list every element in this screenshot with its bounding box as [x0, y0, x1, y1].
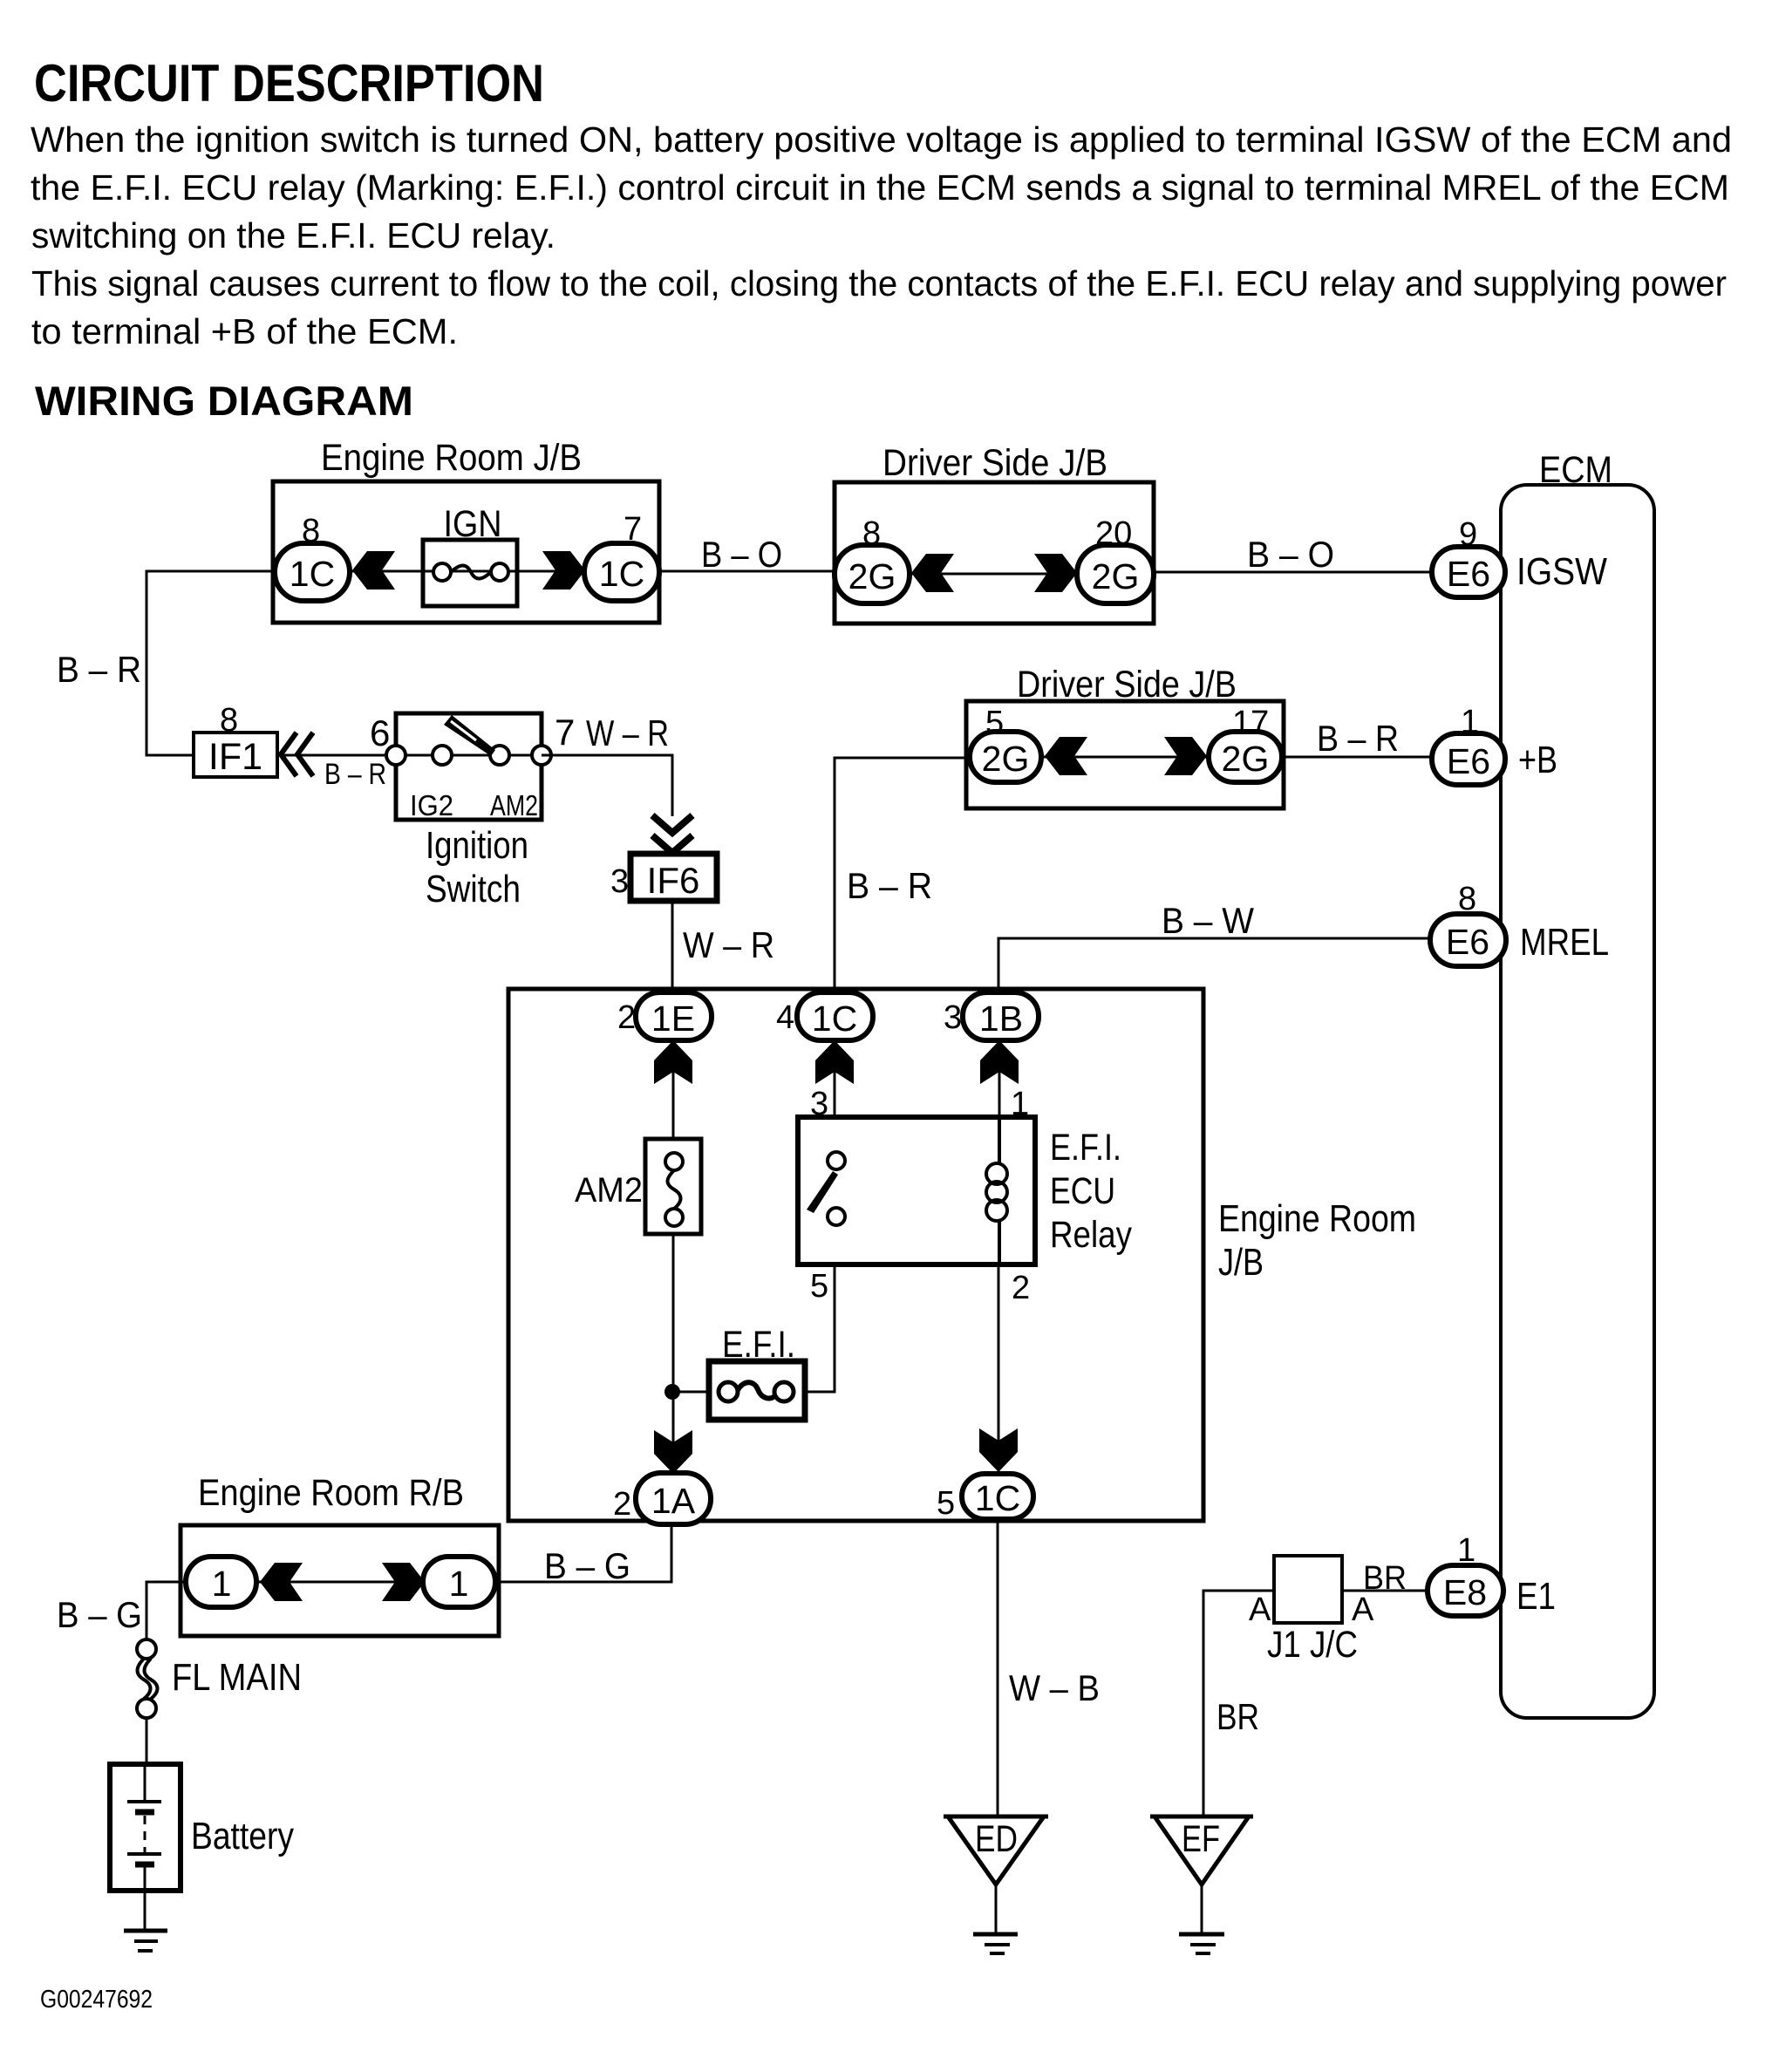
svg-text:This signal causes current to: This signal causes current to flow to th… [31, 263, 1727, 303]
arrow up below 1E [654, 1040, 692, 1084]
label BR (vertical) [1216, 1696, 1259, 1737]
relay pin 5 label [810, 1268, 828, 1305]
wire through switch [397, 754, 542, 757]
svg-text:B – G: B – G [544, 1545, 630, 1586]
svg-text:G00247692: G00247692 [40, 1986, 153, 2014]
svg-text:B – R: B – R [57, 649, 141, 690]
junction connector J1 J/C [1274, 1556, 1342, 1623]
svg-text:4: 4 [776, 999, 794, 1036]
svg-text:E6: E6 [1446, 922, 1489, 962]
svg-text:B – R: B – R [1317, 718, 1399, 759]
ground ED [973, 1934, 1018, 1953]
wire inside Driver Side J/B [835, 573, 1154, 576]
svg-text:AM2: AM2 [575, 1171, 643, 1210]
label E1 [1516, 1575, 1556, 1618]
svg-text:Engine Room J/B: Engine Room J/B [321, 437, 582, 479]
wire AM2 to junction [672, 1234, 675, 1395]
svg-text:6: 6 [370, 712, 390, 753]
svg-text:FL MAIN: FL MAIN [172, 1656, 302, 1699]
svg-text:1C: 1C [975, 1478, 1020, 1518]
relay contact lower [828, 1208, 845, 1225]
connector oval E6 (+B pin 1) [1432, 733, 1505, 785]
svg-text:E.F.I.: E.F.I. [1050, 1127, 1121, 1169]
svg-text:Switch: Switch [426, 868, 521, 910]
connector oval 1C (pin 7) [584, 543, 659, 601]
wire relay pin2 to 1C bottom [998, 1264, 1000, 1474]
svg-text:E6: E6 [1447, 554, 1490, 594]
wire EFI fuse to junction [672, 1391, 709, 1394]
connector pin 2 label (1E) [617, 999, 636, 1036]
svg-text:2G: 2G [848, 556, 896, 596]
svg-text:7: 7 [555, 712, 575, 753]
wire B-W MREL [998, 938, 1432, 993]
svg-text:E1: E1 [1516, 1575, 1556, 1618]
wire FL MAIN to battery [146, 1718, 148, 1764]
fuse E.F.I. [709, 1361, 805, 1420]
connector pin 8 label IF1 [220, 702, 238, 739]
svg-text:Driver Side J/B: Driver Side J/B [882, 442, 1107, 484]
svg-text:W – R: W – R [586, 712, 669, 753]
terminal label IG2 [410, 789, 453, 821]
ignition switch SW1 box [396, 713, 542, 820]
relay contact upper [828, 1152, 845, 1169]
chevrons after IF1 [281, 733, 313, 776]
wire battery to ground [144, 1891, 147, 1929]
wire switch to IF6 [542, 755, 672, 816]
terminal label AM2 [490, 789, 538, 821]
wire 1E to AM2 fuse [672, 1039, 675, 1139]
junction block Engine Room R/B [181, 1472, 499, 1636]
svg-text:3: 3 [610, 863, 629, 900]
svg-text:A: A [1352, 1591, 1374, 1628]
ground battery [124, 1931, 167, 1951]
svg-text:E6: E6 [1447, 741, 1490, 781]
wire W-B 1C to ED [997, 1519, 999, 1816]
connector oval 1A [636, 1473, 711, 1524]
wire relay pin1 to coil [998, 1117, 1001, 1162]
label J1 J/C [1267, 1624, 1358, 1666]
relay pin 2 label [1012, 1270, 1030, 1306]
wire top row B-R left vertical [147, 571, 273, 755]
label W-R vertical [683, 924, 774, 965]
arrow right (Engine Room J/B) [542, 551, 585, 590]
connector pin 5 label [985, 705, 1004, 741]
connector pin 2 label (1A) [613, 1486, 631, 1523]
ground triangle EF [1150, 1816, 1253, 1885]
chevrons down to IF6 [652, 815, 692, 853]
fuse IGN [423, 540, 517, 606]
arrow down above 1A [654, 1430, 692, 1474]
svg-text:J/B: J/B [1218, 1241, 1264, 1284]
svg-text:Engine Room: Engine Room [1218, 1197, 1416, 1240]
svg-text:5: 5 [810, 1268, 828, 1305]
label B-W [1162, 900, 1254, 941]
svg-text:Battery: Battery [191, 1815, 294, 1857]
arrow left (Driver Side J/B 2) [1045, 737, 1087, 775]
arrow left (Driver Side J/B) [911, 554, 954, 592]
svg-text:2G: 2G [1092, 556, 1140, 596]
svg-text:3: 3 [944, 999, 962, 1036]
svg-text:the E.F.I. ECU relay (Marking:: the E.F.I. ECU relay (Marking: E.F.I.) c… [31, 167, 1729, 208]
svg-text:IF1: IF1 [208, 736, 262, 778]
switch terminal pin 7 [532, 746, 551, 765]
figure number G00247692 [40, 1986, 153, 2014]
svg-text:EF: EF [1182, 1818, 1220, 1860]
arrow left (Engine Room R/B) [260, 1563, 303, 1601]
connector pin 4 label (1C) [776, 999, 794, 1036]
connector oval 2G (pin 5) [970, 732, 1041, 782]
connector pin 1 label E8 [1457, 1532, 1475, 1569]
svg-text:W – B: W – B [1009, 1667, 1100, 1708]
ECM box [1501, 449, 1654, 1718]
svg-text:B – W: B – W [1162, 900, 1254, 941]
wire ED to ground [995, 1885, 998, 1932]
wire inside Engine Room R/B [186, 1581, 495, 1584]
svg-text:to terminal +B of the ECM.: to terminal +B of the ECM. [31, 311, 458, 351]
label W-B [1009, 1667, 1100, 1708]
connector oval 2G (pin 8) [835, 545, 910, 603]
fuse AM2 value label [575, 1171, 643, 1210]
svg-text:B – O: B – O [1247, 534, 1334, 575]
wire coil to relay pin2 [998, 1220, 1001, 1264]
fuse IGN value label [444, 503, 502, 545]
svg-text:J1 J/C: J1 J/C [1267, 1624, 1358, 1666]
relay pin 3 label [810, 1086, 828, 1122]
label MREL [1520, 921, 1609, 964]
relay pin 1 label [1011, 1086, 1029, 1122]
svg-text:MREL: MREL [1520, 921, 1609, 964]
svg-text:W – R: W – R [683, 924, 774, 965]
paragraph circuit description [31, 119, 1732, 351]
svg-text:ECU: ECU [1050, 1170, 1115, 1212]
junction dot [664, 1384, 680, 1400]
connector pin 8 label (2G) [862, 515, 881, 552]
label Battery [191, 1815, 294, 1857]
svg-text:2: 2 [1012, 1270, 1030, 1306]
svg-text:BR: BR [1363, 1560, 1407, 1597]
svg-text:5: 5 [937, 1485, 955, 1522]
label BR (top) [1363, 1560, 1407, 1597]
label B-G left [57, 1594, 142, 1635]
svg-text:Engine Room R/B: Engine Room R/B [198, 1472, 464, 1514]
junction block Driver Side J/B (top) [835, 442, 1154, 624]
arrow up below 1C [815, 1040, 854, 1084]
label Ignition Switch [426, 824, 528, 910]
ground EF [1179, 1934, 1224, 1953]
connector oval 1 (left) [186, 1557, 256, 1607]
svg-text:1A: 1A [651, 1481, 696, 1521]
label +B [1518, 739, 1557, 781]
svg-text:Ignition: Ignition [426, 824, 528, 867]
label B-R left [57, 649, 141, 690]
wire inside Driver Side J/B 2 [966, 756, 1284, 759]
switch contact AM2 [490, 746, 509, 765]
connector pin 8 label MREL [1458, 881, 1476, 917]
switch lever [444, 715, 495, 756]
relay K1 E.F.I. ECU Relay box [798, 1117, 1035, 1264]
svg-text:WIRING DIAGRAM: WIRING DIAGRAM [35, 378, 413, 424]
svg-text:A: A [1249, 1591, 1271, 1628]
svg-text:1C: 1C [812, 999, 857, 1039]
connector pin 9 label [1459, 516, 1477, 553]
svg-text:When the ignition switch is tu: When the ignition switch is turned ON, b… [31, 119, 1732, 160]
connector oval 1B [963, 992, 1039, 1040]
svg-text:2: 2 [613, 1486, 631, 1523]
label W-R top [586, 712, 669, 753]
wire B-G right to 1A [495, 1524, 671, 1582]
wire IF1 to switch [277, 754, 397, 757]
connector pin 1 label [1461, 704, 1479, 740]
label Engine Room J/B (right) [1218, 1197, 1416, 1284]
wire BR J1 to EF [1203, 1591, 1274, 1816]
switch contact IG2 [433, 746, 452, 765]
heading CIRCUIT DESCRIPTION [34, 54, 544, 112]
label B-G right [544, 1545, 630, 1586]
svg-text:B – R: B – R [847, 865, 932, 906]
connector pin 8 label [302, 513, 320, 549]
switch terminal pin 6 [386, 746, 405, 765]
svg-text:1: 1 [212, 1564, 232, 1604]
connector pin 7 label [624, 511, 642, 548]
label E.F.I. ECU Relay [1050, 1127, 1132, 1256]
svg-text:+B: +B [1518, 739, 1557, 781]
label B-R right [1317, 718, 1399, 759]
label IGSW [1516, 550, 1607, 593]
svg-text:1B: 1B [979, 999, 1023, 1039]
connector pin 3 label (1B) [944, 999, 962, 1036]
svg-text:2: 2 [617, 999, 636, 1036]
connector oval E8 [1428, 1565, 1503, 1616]
label B-R vertical [847, 865, 932, 906]
label B-O 1 [701, 534, 782, 575]
pin A label right [1352, 1591, 1374, 1628]
connector pin 20 label [1095, 515, 1132, 552]
svg-text:E8: E8 [1443, 1572, 1487, 1612]
svg-text:1: 1 [449, 1564, 469, 1604]
pin 6 label [370, 712, 390, 753]
connector pin 3 label IF6 [610, 863, 629, 900]
wire B-O segment 1 [659, 570, 835, 573]
wire inside Engine Room J/B [273, 570, 659, 573]
connector IF1 [194, 733, 277, 778]
svg-text:B – R: B – R [324, 758, 386, 791]
wire relay pin5 to EFI fuse [805, 1264, 835, 1392]
wire B-G left [147, 1582, 186, 1639]
connector oval E6 (MREL pin 8) [1430, 914, 1506, 966]
connector oval 1 (right) [423, 1557, 495, 1607]
arrow right (Engine Room R/B) [382, 1563, 425, 1601]
relay coil [986, 1163, 1007, 1221]
junction block Engine Room J/B (top) [273, 437, 659, 623]
pin A label left [1249, 1591, 1271, 1628]
pin 7 label [555, 712, 575, 753]
wire B-R vertical to 1C [835, 758, 970, 992]
svg-text:IGSW: IGSW [1516, 550, 1607, 593]
arrow right (Driver Side J/B 2) [1164, 737, 1207, 775]
connector oval 1C (pin 4) [797, 992, 873, 1040]
wire junction down to 1A [672, 1392, 675, 1480]
wire J1 to E8 [1342, 1590, 1430, 1592]
svg-text:1E: 1E [651, 999, 695, 1039]
battery BT1 [110, 1764, 181, 1891]
arrow up below 1B [980, 1040, 1019, 1084]
svg-text:IG2: IG2 [410, 789, 453, 821]
wire IF6 down [671, 901, 674, 993]
connector oval 2G (pin 17) [1209, 732, 1282, 782]
junction block Engine Room J/B (big) [508, 989, 1203, 1521]
svg-text:CIRCUIT DESCRIPTION: CIRCUIT DESCRIPTION [34, 54, 544, 112]
relay switch arm [807, 1171, 838, 1213]
svg-text:AM2: AM2 [490, 789, 538, 821]
fuse AM2 [645, 1139, 701, 1234]
fuse E.F.I. value label [722, 1324, 795, 1366]
label B-R small [324, 758, 386, 791]
svg-text:2G: 2G [1222, 739, 1270, 779]
wire B-R to +B [1284, 756, 1432, 759]
svg-text:B – O: B – O [701, 534, 782, 575]
connector IF6 [630, 854, 717, 901]
wire B-O segment 2 [1154, 571, 1432, 574]
svg-text:IF6: IF6 [647, 860, 700, 901]
svg-text:1C: 1C [599, 554, 644, 594]
arrow down above 1C bottom [979, 1428, 1018, 1472]
heading WIRING DIAGRAM [35, 378, 413, 424]
connector oval 1C bottom [962, 1474, 1033, 1519]
connector pin 5 label (1C bottom) [937, 1485, 955, 1522]
connector oval 2G (pin 20) [1077, 545, 1154, 603]
fusible link FL MAIN [137, 1639, 158, 1718]
svg-text:switching on the E.F.I. ECU re: switching on the E.F.I. ECU relay. [31, 215, 555, 256]
svg-text:ED: ED [975, 1818, 1018, 1860]
connector oval 1C (pin 8) [275, 543, 350, 601]
svg-text:2G: 2G [982, 739, 1030, 779]
ground triangle ED [944, 1816, 1048, 1885]
label FL MAIN [172, 1656, 302, 1699]
wire 1C to relay pin 3 [834, 1039, 836, 1117]
svg-text:1C: 1C [290, 554, 335, 594]
svg-text:B – G: B – G [57, 1594, 142, 1635]
connector oval 1E [636, 992, 712, 1040]
connector oval E6 (IGSW pin 9) [1432, 547, 1505, 597]
arrow right (Driver Side J/B) [1034, 554, 1077, 592]
wire 1B to relay pin 1 [998, 1039, 1001, 1117]
label B-O 2 [1247, 534, 1334, 575]
wire EF to ground [1201, 1885, 1203, 1932]
svg-text:BR: BR [1216, 1696, 1259, 1737]
svg-text:Relay: Relay [1050, 1214, 1132, 1256]
junction block Driver Side J/B (second) [966, 664, 1284, 808]
connector pin 17 label [1232, 705, 1269, 741]
arrow left (Engine Room J/B) [352, 551, 395, 590]
